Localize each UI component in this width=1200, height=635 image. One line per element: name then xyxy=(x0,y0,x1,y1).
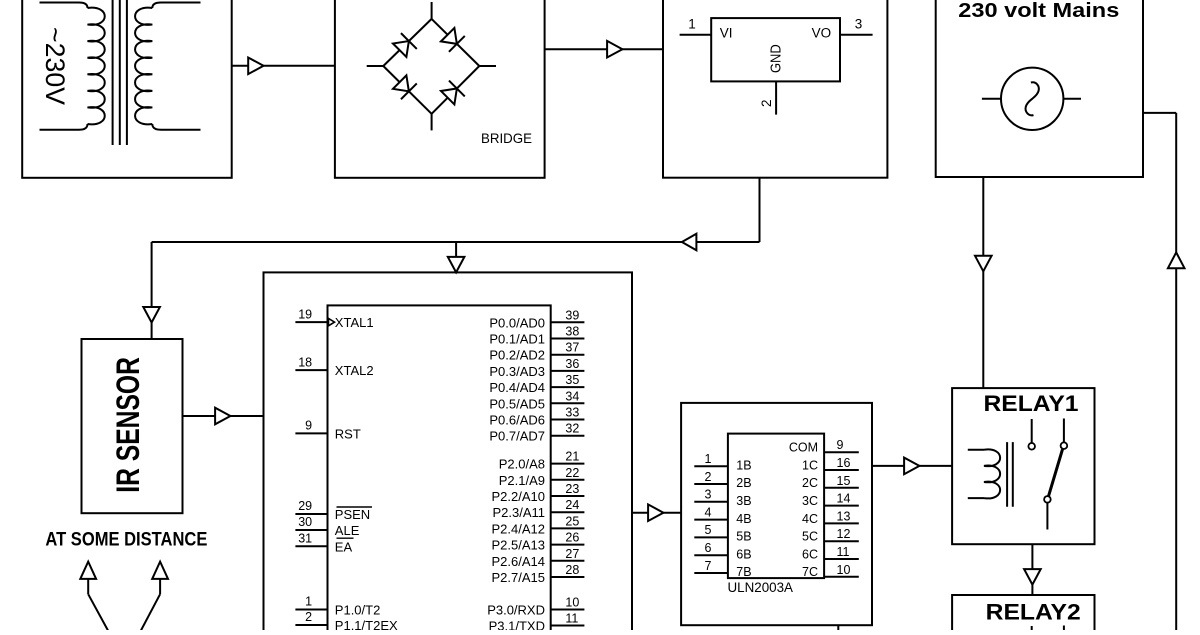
svg-text:25: 25 xyxy=(565,514,579,528)
svg-text:11: 11 xyxy=(837,545,850,559)
svg-text:33: 33 xyxy=(565,406,579,420)
svg-text:39: 39 xyxy=(565,308,579,322)
svg-text:P1.0/T2: P1.0/T2 xyxy=(335,603,381,618)
svg-text:3C: 3C xyxy=(802,494,818,508)
svg-text:1: 1 xyxy=(688,17,696,32)
svg-text:4B: 4B xyxy=(736,512,751,526)
svg-text:27: 27 xyxy=(565,547,579,561)
svg-text:15: 15 xyxy=(837,474,851,488)
svg-text:18: 18 xyxy=(298,355,312,369)
svg-text:ULN2003A: ULN2003A xyxy=(728,579,794,595)
svg-text:19: 19 xyxy=(298,307,312,321)
svg-text:12: 12 xyxy=(837,527,851,541)
svg-text:9: 9 xyxy=(305,419,312,433)
svg-text:5: 5 xyxy=(705,523,712,537)
svg-text:P1.1/T2EX: P1.1/T2EX xyxy=(335,618,398,630)
svg-text:36: 36 xyxy=(565,357,579,371)
svg-text:AT SOME DISTANCE: AT SOME DISTANCE xyxy=(45,529,207,550)
svg-text:21: 21 xyxy=(565,450,579,464)
svg-text:13: 13 xyxy=(837,509,851,523)
svg-text:4: 4 xyxy=(705,505,712,519)
svg-text:P0.6/AD6: P0.6/AD6 xyxy=(489,413,545,428)
svg-text:P0.5/AD5: P0.5/AD5 xyxy=(489,396,545,411)
svg-text:RST: RST xyxy=(335,426,361,441)
svg-text:2C: 2C xyxy=(802,476,818,490)
svg-text:1B: 1B xyxy=(736,458,751,472)
svg-text:GND: GND xyxy=(768,44,785,73)
svg-text:34: 34 xyxy=(565,389,579,403)
svg-text:2: 2 xyxy=(759,99,774,107)
svg-text:30: 30 xyxy=(298,515,312,529)
svg-text:2: 2 xyxy=(705,470,712,484)
svg-text:24: 24 xyxy=(565,498,579,512)
svg-text:VI: VI xyxy=(720,26,733,41)
svg-text:P2.3/A11: P2.3/A11 xyxy=(492,505,545,520)
svg-text:5B: 5B xyxy=(736,530,751,544)
svg-text:P2.6/A14: P2.6/A14 xyxy=(492,554,546,569)
svg-text:22: 22 xyxy=(565,466,579,480)
svg-text:9: 9 xyxy=(837,438,844,452)
svg-text:37: 37 xyxy=(565,341,579,355)
svg-text:16: 16 xyxy=(837,456,851,470)
svg-text:BRIDGE: BRIDGE xyxy=(481,130,532,146)
svg-text:6C: 6C xyxy=(802,547,818,561)
svg-text:3B: 3B xyxy=(736,494,751,508)
svg-text:XTAL1: XTAL1 xyxy=(335,315,374,330)
svg-text:P0.3/AD3: P0.3/AD3 xyxy=(489,364,545,379)
svg-text:P0.0/AD0: P0.0/AD0 xyxy=(489,315,545,330)
svg-text:6: 6 xyxy=(705,541,712,555)
svg-text:31: 31 xyxy=(298,532,312,546)
svg-text:P2.4/A12: P2.4/A12 xyxy=(492,521,546,536)
svg-text:P2.0/A8: P2.0/A8 xyxy=(499,457,545,472)
svg-text:P2.7/A15: P2.7/A15 xyxy=(492,570,546,585)
svg-text:P0.1/AD1: P0.1/AD1 xyxy=(489,332,545,347)
svg-text:11: 11 xyxy=(565,612,578,626)
svg-text:P0.2/AD2: P0.2/AD2 xyxy=(489,348,545,363)
svg-text:230 volt Mains: 230 volt Mains xyxy=(958,0,1119,22)
svg-text:2: 2 xyxy=(305,610,312,624)
svg-text:P3.1/TXD: P3.1/TXD xyxy=(489,619,545,631)
svg-text:7C: 7C xyxy=(802,565,818,579)
svg-text:1: 1 xyxy=(705,452,712,466)
svg-text:P2.1/A9: P2.1/A9 xyxy=(499,473,545,488)
svg-text:26: 26 xyxy=(565,531,579,545)
svg-text:3: 3 xyxy=(855,17,863,32)
svg-text:P0.4/AD4: P0.4/AD4 xyxy=(489,380,545,395)
svg-text:38: 38 xyxy=(565,325,579,339)
svg-text:IR SENSOR: IR SENSOR xyxy=(110,357,146,493)
svg-text:RELAY2: RELAY2 xyxy=(986,600,1081,625)
svg-text:P2.2/A10: P2.2/A10 xyxy=(492,489,546,504)
svg-text:ALE: ALE xyxy=(335,523,360,538)
svg-text:RELAY1: RELAY1 xyxy=(984,391,1079,416)
svg-text:35: 35 xyxy=(565,373,579,387)
svg-text:5C: 5C xyxy=(802,530,818,544)
svg-text:14: 14 xyxy=(837,492,851,506)
svg-text:6B: 6B xyxy=(736,547,751,561)
svg-text:P0.7/AD7: P0.7/AD7 xyxy=(489,429,545,444)
svg-text:P2.5/A13: P2.5/A13 xyxy=(492,538,546,553)
svg-text:2B: 2B xyxy=(736,476,751,490)
svg-text:7B: 7B xyxy=(736,565,751,579)
svg-text:VO: VO xyxy=(812,26,832,41)
svg-text:COM: COM xyxy=(789,440,818,454)
svg-text:1C: 1C xyxy=(802,458,818,472)
svg-text:EA: EA xyxy=(335,539,353,554)
svg-text:PSEN: PSEN xyxy=(335,507,370,522)
svg-text:XTAL2: XTAL2 xyxy=(335,363,374,378)
svg-text:28: 28 xyxy=(565,563,579,577)
svg-text:7: 7 xyxy=(705,559,712,573)
svg-text:23: 23 xyxy=(565,482,579,496)
svg-text:P3.0/RXD: P3.0/RXD xyxy=(487,603,545,618)
svg-text:10: 10 xyxy=(565,596,579,610)
svg-text:32: 32 xyxy=(565,422,579,436)
svg-text:3: 3 xyxy=(705,488,712,502)
svg-text:29: 29 xyxy=(298,499,312,513)
svg-text:10: 10 xyxy=(837,563,851,577)
svg-text:4C: 4C xyxy=(802,512,818,526)
svg-text:1: 1 xyxy=(305,595,312,609)
svg-text:~230V: ~230V xyxy=(40,27,70,105)
